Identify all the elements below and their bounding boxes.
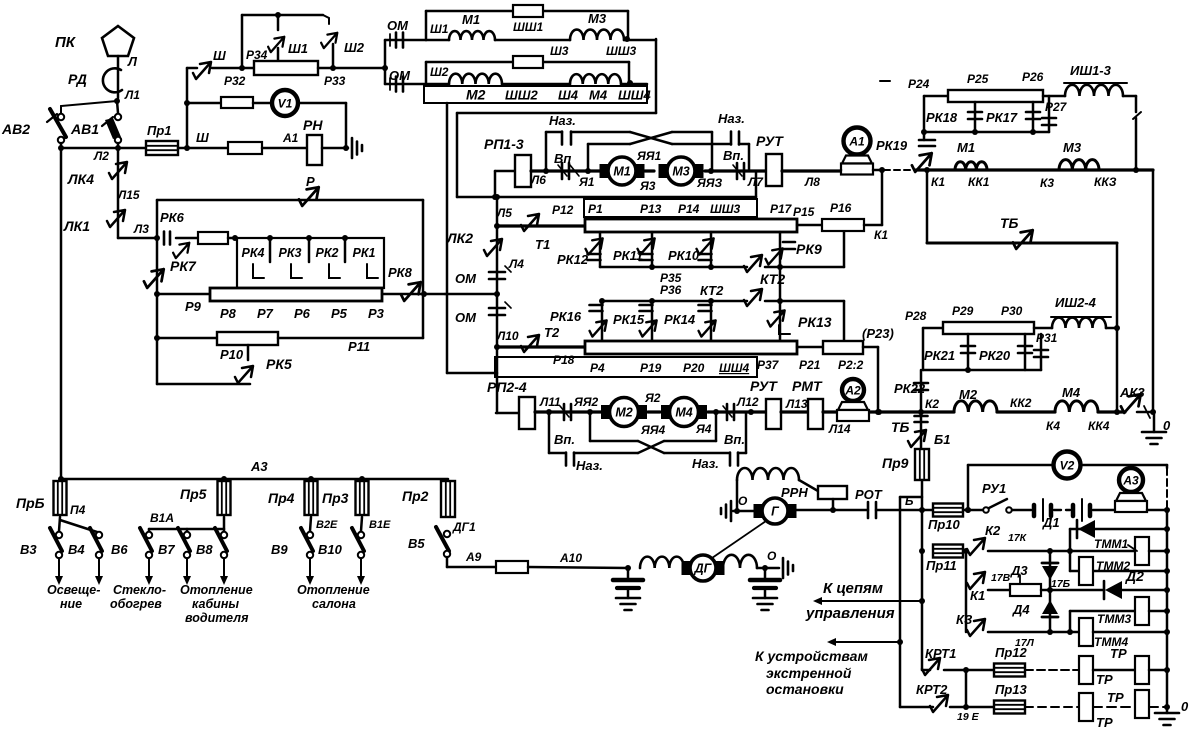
contact P27 bbox=[1042, 96, 1056, 132]
svg-text:А9: А9 bbox=[465, 550, 482, 564]
svg-text:РК1: РК1 bbox=[353, 246, 376, 260]
wire bbox=[757, 567, 779, 570]
svg-text:ЛК4: ЛК4 bbox=[67, 171, 94, 187]
label V8 bbox=[196, 542, 213, 557]
svg-text:обогрев: обогрев bbox=[110, 597, 162, 611]
label LK1 bbox=[63, 218, 90, 234]
label AV2 bbox=[1, 121, 30, 137]
wire bbox=[495, 39, 570, 42]
svg-text:В6: В6 bbox=[111, 542, 128, 557]
RRN field coil loop bbox=[737, 468, 818, 511]
svg-text:Освеще-: Освеще- bbox=[47, 583, 100, 597]
label M4 comm bbox=[1062, 385, 1081, 400]
ground left of G bbox=[721, 501, 755, 521]
label V4 bbox=[68, 542, 85, 557]
fuse Pr3 bbox=[356, 481, 369, 515]
contactor box RK4 RK3 RK2 RK1 bbox=[237, 235, 384, 288]
label P26 bbox=[1022, 70, 1044, 84]
svg-text:Р11: Р11 bbox=[348, 339, 370, 354]
label RK21 bbox=[924, 348, 955, 363]
svg-text:ТБ: ТБ bbox=[891, 419, 910, 435]
wire bbox=[212, 67, 254, 70]
fuse Pr12 bbox=[994, 664, 1025, 677]
svg-text:РК19: РК19 bbox=[876, 138, 908, 153]
svg-text:К4: К4 bbox=[1046, 419, 1060, 433]
svg-text:М3: М3 bbox=[588, 11, 607, 26]
ground right of RN bbox=[352, 138, 362, 158]
wire K1 row bbox=[988, 589, 1010, 592]
label PrB bbox=[16, 495, 45, 511]
wire P23 down bbox=[877, 347, 880, 412]
label KRT2 bbox=[916, 682, 948, 697]
svg-text:Наз.: Наз. bbox=[576, 458, 603, 473]
arrow cab heat 1 bbox=[183, 558, 191, 585]
wire K3 row bbox=[988, 629, 1079, 635]
relay TMM3 bbox=[1135, 597, 1149, 625]
svg-text:экстренной: экстренной bbox=[766, 665, 852, 681]
label RK22 bbox=[894, 381, 926, 396]
label Naz group2 left bbox=[576, 458, 603, 473]
svg-text:Р12: Р12 bbox=[552, 203, 574, 217]
wire bbox=[1043, 95, 1065, 98]
inductor filter left bbox=[640, 557, 684, 568]
label M1 field bbox=[462, 12, 480, 27]
wire TMM4 to rail bbox=[1093, 629, 1170, 635]
switch RU1 bbox=[983, 499, 1012, 513]
wire rail link bbox=[900, 496, 922, 499]
wire bbox=[1106, 327, 1117, 330]
switch V7 bbox=[178, 528, 190, 558]
svg-text:Р17: Р17 bbox=[770, 202, 793, 216]
wire A9 bbox=[447, 557, 496, 567]
label KK2 bbox=[1010, 396, 1032, 410]
wire bbox=[253, 102, 272, 105]
wire bbox=[963, 548, 969, 554]
label Vp group2 left bbox=[554, 432, 575, 447]
contactor RK5 bbox=[235, 366, 253, 383]
svg-text:АВ2: АВ2 bbox=[1, 121, 30, 137]
svg-text:РК5: РК5 bbox=[266, 356, 292, 372]
svg-text:Р30: Р30 bbox=[1001, 304, 1023, 318]
label TB lower bbox=[891, 419, 910, 435]
node R10 bbox=[154, 335, 160, 341]
label DG1 bbox=[452, 520, 476, 534]
label TMM4 bbox=[1094, 635, 1128, 649]
svg-text:К1: К1 bbox=[874, 228, 888, 242]
text Osveshchenie bbox=[47, 583, 100, 611]
ammeter A1 bbox=[841, 128, 873, 175]
regulator RRN box bbox=[818, 486, 847, 499]
svg-text:В8: В8 bbox=[196, 542, 213, 557]
svg-text:В1Е: В1Е bbox=[369, 519, 391, 531]
wire to RK box bbox=[228, 235, 238, 241]
wire bbox=[332, 44, 335, 68]
svg-text:ИШ2-4: ИШ2-4 bbox=[1055, 295, 1097, 310]
wire RP1-3 feed bbox=[492, 171, 515, 200]
label L10 bbox=[496, 329, 519, 343]
left rail B down bbox=[899, 497, 902, 707]
wire bbox=[176, 237, 198, 240]
wire bbox=[1069, 611, 1072, 632]
resistor branch1 bbox=[513, 5, 543, 17]
label AK3 bbox=[1119, 385, 1145, 400]
svg-text:ТР: ТР bbox=[1096, 672, 1113, 687]
svg-text:КК1: КК1 bbox=[968, 175, 990, 189]
wire K2 row bbox=[988, 548, 1135, 554]
wire branch1 return bbox=[457, 39, 656, 113]
svg-text:Наз.: Наз. bbox=[549, 113, 576, 128]
svg-text:РК14: РК14 bbox=[664, 312, 696, 327]
svg-text:Р3: Р3 bbox=[368, 306, 385, 321]
wire to battery bbox=[1012, 509, 1031, 512]
wire L13 bbox=[781, 410, 808, 413]
label RP1-3 bbox=[484, 136, 524, 152]
svg-text:Ш1: Ш1 bbox=[288, 41, 308, 56]
svg-text:Р15: Р15 bbox=[793, 205, 815, 219]
svg-text:К3: К3 bbox=[1040, 176, 1054, 190]
label Pr2 bbox=[402, 488, 429, 504]
wire R line bbox=[157, 199, 423, 202]
svg-text:Вп.: Вп. bbox=[554, 432, 575, 447]
svg-text:М3: М3 bbox=[1063, 140, 1082, 155]
wire LK column bbox=[117, 148, 120, 238]
svg-text:Пр2: Пр2 bbox=[402, 488, 429, 504]
junctions right bbox=[1114, 325, 1120, 415]
node YaYa3 bbox=[708, 168, 714, 174]
svg-text:остановки: остановки bbox=[766, 681, 844, 697]
resistor A9 bbox=[496, 561, 528, 573]
node P34 bbox=[275, 12, 281, 18]
svg-text:ТММ3: ТММ3 bbox=[1097, 612, 1131, 626]
wire Pr9 down bbox=[921, 480, 924, 509]
svg-text:Л3: Л3 bbox=[133, 222, 149, 236]
svg-text:ТР: ТР bbox=[1107, 690, 1124, 705]
fuse Pr4 bbox=[305, 481, 318, 515]
label Pr12 bbox=[995, 645, 1028, 660]
relay TMM1 bbox=[1128, 537, 1149, 565]
label Pr13 bbox=[995, 682, 1028, 697]
svg-text:ОМ: ОМ bbox=[387, 18, 409, 33]
svg-text:ШШ3: ШШ3 bbox=[710, 202, 740, 216]
wire bbox=[1093, 669, 1135, 672]
svg-text:Р: Р bbox=[306, 174, 315, 189]
label M3 comm bbox=[1063, 140, 1082, 155]
wire bbox=[156, 200, 159, 238]
label P21 bbox=[799, 358, 821, 372]
text Steklo-obogrev bbox=[110, 583, 166, 611]
inductor ISh1-3 bbox=[1064, 63, 1127, 96]
contactor R bbox=[299, 187, 319, 206]
svg-text:Л4: Л4 bbox=[508, 257, 524, 271]
svg-text:0: 0 bbox=[1163, 418, 1171, 433]
wire to control circuits bbox=[813, 597, 922, 605]
label KT2 upper bbox=[760, 271, 785, 287]
svg-text:Пр11: Пр11 bbox=[926, 558, 957, 573]
label V2E bbox=[316, 519, 338, 531]
wire bbox=[1034, 327, 1052, 330]
node P33 bbox=[330, 65, 336, 71]
right rail low voltage bbox=[1166, 510, 1169, 707]
label RK18 bbox=[926, 110, 958, 125]
pantograph contact L4 bbox=[489, 266, 511, 279]
label RK6 bbox=[160, 210, 185, 225]
label RK16 bbox=[550, 309, 582, 324]
svg-text:ТММ1: ТММ1 bbox=[1094, 537, 1128, 551]
svg-text:Л7: Л7 bbox=[747, 175, 764, 189]
label K1 bbox=[931, 175, 945, 189]
resistor V1 branch bbox=[221, 97, 253, 108]
inductor M4 comm field bbox=[1055, 401, 1098, 412]
label T1 bbox=[535, 237, 550, 252]
svg-text:М1: М1 bbox=[462, 12, 480, 27]
label YaYa2 bbox=[573, 395, 598, 409]
node V1 branch bbox=[184, 100, 190, 106]
wires PrB to switches bbox=[59, 517, 97, 532]
svg-text:Стекло-: Стекло- bbox=[113, 583, 166, 597]
labels R9 R8 R7 R6 R5 R3 bbox=[185, 299, 385, 321]
label P17 bbox=[770, 202, 793, 216]
resistor RK6 bbox=[198, 232, 228, 244]
wire bbox=[187, 102, 221, 105]
svg-text:Р9: Р9 bbox=[185, 299, 202, 314]
label R10 bbox=[220, 347, 244, 362]
svg-text:Пр5: Пр5 bbox=[180, 486, 207, 502]
svg-text:Р33: Р33 bbox=[324, 74, 346, 88]
label OM1 bbox=[387, 18, 409, 33]
ground right main bbox=[1142, 412, 1166, 444]
wires breakers to main line bbox=[61, 143, 118, 148]
svg-text:РК17: РК17 bbox=[986, 110, 1018, 125]
wire bbox=[921, 410, 954, 413]
label Pr3 bbox=[322, 490, 349, 506]
contactor K2 bbox=[967, 538, 985, 555]
inductor ISh2-4 bbox=[1051, 295, 1111, 328]
wire RN to ground bbox=[322, 145, 349, 151]
wire far right rail bbox=[1152, 170, 1155, 412]
contactor KT2 upper bbox=[744, 255, 762, 272]
svg-text:РК15: РК15 bbox=[613, 312, 645, 327]
relay TR c bbox=[1079, 693, 1093, 721]
label OM2 bbox=[389, 68, 411, 83]
label TR d bbox=[1096, 715, 1113, 730]
svg-text:ЯЯЗ: ЯЯЗ bbox=[696, 176, 722, 190]
label TMM3 bbox=[1097, 612, 1131, 626]
resistor R25-R26 bbox=[948, 90, 1043, 102]
label RK17 bbox=[986, 110, 1018, 125]
wire KK2 bbox=[997, 410, 1055, 413]
wire group1 bottom loop bbox=[457, 196, 756, 199]
switch V3 bbox=[50, 528, 62, 558]
svg-text:А1: А1 bbox=[282, 131, 299, 145]
label RK19 bbox=[876, 138, 908, 153]
label K1 contact bbox=[970, 588, 985, 603]
label Sh1 coil bbox=[430, 22, 449, 36]
label 17K bbox=[1008, 532, 1028, 544]
contactor P34 bbox=[268, 37, 284, 52]
label TMM1 bbox=[1094, 537, 1128, 551]
left rail Pr9 down bbox=[921, 510, 924, 670]
wire link KRT rows bbox=[965, 670, 968, 707]
svg-text:Д4: Д4 bbox=[1012, 602, 1030, 617]
svg-text:ККЗ: ККЗ bbox=[1094, 175, 1117, 189]
relay TMM4 bbox=[1079, 618, 1093, 646]
svg-text:В3: В3 bbox=[20, 542, 37, 557]
wire to resistor bbox=[157, 293, 210, 296]
label RMT bbox=[792, 378, 823, 394]
contactor LK4 bbox=[109, 162, 127, 179]
svg-text:ЯЯ2: ЯЯ2 bbox=[573, 395, 598, 409]
label P27 bbox=[1045, 100, 1068, 114]
motor M1 bbox=[600, 157, 644, 185]
label P18 bbox=[553, 353, 575, 367]
field branch 1 loop bbox=[426, 11, 628, 40]
svg-text:РК10: РК10 bbox=[668, 248, 700, 263]
svg-text:ШШ2: ШШ2 bbox=[505, 88, 538, 103]
svg-text:РК9: РК9 bbox=[796, 241, 822, 257]
label A10 bbox=[559, 551, 582, 565]
label P36 bbox=[660, 283, 682, 297]
svg-text:Р10: Р10 bbox=[220, 347, 244, 362]
svg-text:Наз.: Наз. bbox=[718, 111, 745, 126]
text Otoplenie kabiny voditelya bbox=[180, 583, 253, 625]
breaker AV1 bbox=[102, 114, 121, 143]
voltmeter V1 bbox=[272, 90, 298, 116]
wire P24 corner bbox=[924, 96, 948, 132]
wire L6 row bbox=[531, 169, 601, 172]
node control circuits bbox=[919, 598, 925, 604]
wire to Sh1 bbox=[277, 48, 280, 61]
contactor RK8 bbox=[401, 282, 421, 301]
label V9 bbox=[271, 542, 288, 557]
bus junctions bbox=[58, 476, 365, 482]
relay TR d bbox=[1135, 690, 1149, 718]
svg-text:М2: М2 bbox=[615, 406, 632, 420]
wire L10 row bbox=[497, 345, 585, 348]
motor M4 bbox=[662, 398, 707, 427]
contact RK18 bbox=[968, 102, 982, 132]
svg-text:Б1: Б1 bbox=[934, 432, 950, 447]
relay TR b bbox=[1135, 656, 1149, 684]
label Naz group1 left bbox=[549, 113, 576, 128]
dashed wire to RK19 bbox=[884, 169, 916, 171]
dashed rail segment bbox=[1166, 468, 1168, 510]
label YaYa3 bbox=[696, 176, 722, 190]
label TMM2 bbox=[1096, 559, 1130, 573]
node rail A3 bbox=[1164, 507, 1170, 513]
label T2 bbox=[544, 325, 560, 340]
svg-text:РК2: РК2 bbox=[316, 246, 339, 260]
wire V2 right bbox=[1081, 465, 1167, 468]
wire P17 down bbox=[779, 232, 782, 267]
label Pr11 bbox=[926, 558, 957, 573]
node L3 bbox=[154, 235, 160, 241]
svg-text:Ш3: Ш3 bbox=[550, 44, 569, 58]
svg-text:Ш: Ш bbox=[196, 130, 209, 145]
svg-text:Т1: Т1 bbox=[535, 237, 550, 252]
label TR b bbox=[1096, 672, 1113, 687]
relay TMM2 bbox=[1079, 557, 1093, 585]
node Ya4 bbox=[713, 409, 719, 415]
label M1 comm bbox=[957, 140, 975, 155]
node RK8 bbox=[421, 291, 427, 297]
svg-text:ДГ: ДГ bbox=[694, 562, 713, 576]
svg-text:Д2: Д2 bbox=[1125, 568, 1144, 584]
svg-text:Р21: Р21 bbox=[799, 358, 821, 372]
contact Vp group1 left bbox=[558, 163, 579, 179]
arrow salon heat 1 bbox=[306, 558, 314, 585]
wire to K2 bbox=[870, 410, 921, 413]
label YaYa4 bbox=[640, 423, 665, 437]
svg-text:Р20: Р20 bbox=[683, 361, 705, 375]
svg-text:КК4: КК4 bbox=[1088, 419, 1110, 433]
contact RK20 bbox=[1018, 334, 1032, 370]
wire L8 bbox=[782, 169, 843, 172]
pantograph PK pentagon bbox=[102, 26, 134, 56]
svg-text:А2: А2 bbox=[844, 384, 861, 398]
relay RP2-4 coil bbox=[519, 397, 535, 429]
svg-text:РП2-4: РП2-4 bbox=[487, 379, 527, 395]
node P23 join bbox=[875, 409, 881, 415]
wire TMM3 to rail bbox=[1149, 608, 1170, 614]
label Pr4 bbox=[268, 490, 295, 506]
label RK5 bbox=[266, 356, 292, 372]
label V10 bbox=[318, 542, 343, 557]
dash wire TR row 2 bbox=[1025, 706, 1079, 708]
svg-text:М3: М3 bbox=[672, 165, 689, 179]
svg-text:ТБ: ТБ bbox=[1000, 215, 1019, 231]
resistor R10 bbox=[217, 332, 278, 345]
label AV1 bbox=[70, 121, 99, 137]
contact RK17 bbox=[1026, 102, 1040, 132]
wire to RK9 node bbox=[765, 264, 783, 270]
label L7 bbox=[747, 175, 764, 189]
svg-text:Л8: Л8 bbox=[804, 175, 820, 189]
label TB upper bbox=[1000, 215, 1019, 231]
wire A10 bbox=[528, 567, 628, 568]
label P25 bbox=[967, 72, 989, 86]
contactor L5 bbox=[521, 214, 539, 231]
switch V5 bbox=[436, 527, 450, 557]
wire to B1 bbox=[876, 409, 921, 449]
label RP2-4 bbox=[487, 379, 527, 395]
wire pantograph down bbox=[117, 56, 120, 98]
label L bbox=[127, 54, 138, 69]
contactors RK12 RK11 RK10 bbox=[586, 232, 714, 267]
svg-text:Вп.: Вп. bbox=[723, 148, 744, 163]
svg-text:Р31: Р31 bbox=[1036, 331, 1058, 345]
label O right of DG bbox=[767, 549, 777, 563]
svg-text:салона: салона bbox=[312, 597, 356, 611]
svg-text:Р16: Р16 bbox=[830, 201, 852, 215]
label P32 bbox=[224, 74, 246, 88]
relay RUT coil group1 bbox=[766, 154, 782, 186]
label L15 bbox=[117, 188, 140, 202]
svg-text:Р4: Р4 bbox=[590, 361, 605, 375]
svg-text:Р36: Р36 bbox=[660, 283, 682, 297]
wire fuse to resistor A1 bbox=[178, 147, 228, 150]
label Naz group2 right bbox=[692, 456, 719, 471]
label ROT bbox=[855, 487, 883, 502]
fuse Pr11 bbox=[933, 545, 963, 558]
label V1E bbox=[369, 519, 391, 531]
contactor KRT1 bbox=[922, 658, 940, 675]
reversing crossover group1 rail Q bbox=[588, 132, 712, 171]
wire up bbox=[241, 15, 244, 68]
label 17B bbox=[1051, 578, 1071, 590]
label TR a bbox=[1110, 646, 1127, 661]
label RK12 bbox=[557, 252, 589, 267]
wire V2 left bbox=[968, 464, 1053, 467]
